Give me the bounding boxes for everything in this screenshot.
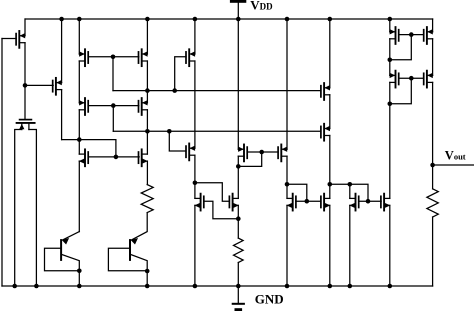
wire node down to M5 drain	[78, 140, 80, 155]
transistor Q1 PNP	[60, 240, 62, 260]
wire M9 gate loop	[175, 57, 186, 91]
wire M20 source to GND	[389, 205, 391, 286]
transistor M3 PMOS	[87, 52, 89, 63]
transistor M20 NMOS	[380, 196, 382, 207]
wire M3 drain to M4 source	[78, 61, 80, 103]
wire R2 top lead	[237, 219, 239, 238]
wire M6 drain to bus A	[146, 61, 148, 91]
svg-text:GND: GND	[255, 292, 284, 307]
node M3 VDD junction	[77, 17, 82, 22]
node M8 drain bus B junction	[145, 129, 150, 134]
wire bus B	[113, 130, 321, 132]
wire M5 source to Q1 emitter	[78, 161, 80, 232]
node M19 gate junction	[366, 199, 371, 204]
node Q2 collector to GND	[145, 284, 150, 289]
node R2 GND junction	[236, 284, 241, 289]
wire M11 gate to R2 top	[204, 201, 239, 219]
wire M5-M8 gate line	[88, 156, 139, 158]
transistor M16 PMOS	[320, 86, 322, 97]
node M23-M24 gate junction	[409, 76, 414, 81]
wire M1 gate to left edge	[2, 38, 16, 40]
wire left edge ground return	[1, 39, 3, 287]
wire M11 source to GND	[194, 205, 196, 286]
wire M15 diode loop	[287, 184, 307, 201]
wire M2 drain to node	[62, 139, 80, 141]
resistor R3 load	[427, 189, 438, 217]
transistor M8 NMOS	[138, 152, 140, 163]
wire tap B down to bus B	[112, 106, 114, 132]
wire M7 drain to bus B	[146, 110, 148, 132]
wire M15-M18 gate line	[296, 200, 321, 202]
wire node down to C1 gate	[24, 85, 26, 119]
transistor M22 PMOS	[423, 30, 425, 41]
wire M10 gate loop	[169, 131, 186, 151]
node M10 gate bus B junction	[167, 129, 172, 134]
wire M21 drain down	[389, 39, 391, 60]
wire M13-M14 gate line	[247, 151, 278, 153]
wire M19 drain trunk	[349, 184, 351, 198]
transistor M14 PMOS	[277, 147, 279, 158]
wire R3 to GND corner	[432, 217, 434, 286]
node Q2 base-collector tie	[145, 269, 150, 274]
wire node to M2 gate	[25, 84, 53, 86]
node M21 drain diode junction	[388, 58, 393, 63]
node M21-M22 gate junction	[409, 32, 414, 37]
wire VDD stem to M13 source	[237, 19, 239, 149]
node M12 source R2 junction	[236, 216, 241, 221]
wire M15 source to GND	[286, 205, 288, 286]
capacitor C1 channel bar	[17, 122, 35, 124]
wire M22 source to VDD corner	[432, 19, 434, 32]
transistor M11 NMOS	[203, 196, 205, 207]
node M1 drain / M2 gate	[23, 83, 28, 88]
wire M1 source to VDD rail	[24, 19, 26, 36]
wire M17 drain down	[329, 136, 331, 185]
node M15 GND junction	[285, 284, 290, 289]
node Vout junction	[430, 163, 435, 168]
node M2 VDD junction	[59, 17, 64, 22]
node M18 GND junction	[328, 284, 333, 289]
transistor M1 startup PMOS	[15, 34, 17, 45]
svg-text:Vout: Vout	[445, 149, 466, 163]
wire M19 diode loop	[350, 184, 368, 201]
node M9 VDD junction	[193, 17, 198, 22]
transistor Q2 PNP	[129, 240, 131, 260]
transistor M9 PMOS	[185, 52, 187, 63]
wire M10 drain down	[194, 155, 196, 183]
node gate line tap B	[111, 103, 116, 108]
wire tap A down to bus A	[112, 57, 114, 91]
node M14-M15 drain junction	[285, 182, 290, 187]
ground GND symbol	[237, 286, 239, 303]
wire M23 diode loop	[390, 78, 412, 104]
transistor M5 NMOS diode	[87, 152, 89, 163]
transistor M4 PMOS	[87, 101, 89, 112]
transistor M23 PMOS diode	[398, 73, 400, 84]
node gate line tap A	[111, 55, 116, 60]
node M21 VDD junction	[388, 17, 393, 22]
wire M21 source to VDD	[389, 19, 391, 32]
transistor M7 PMOS	[138, 101, 140, 112]
wire M21 diode loop	[390, 35, 412, 60]
transistor M10 PMOS	[185, 146, 187, 157]
node M13-M14 gate junction	[259, 150, 264, 155]
wire bus A to M7 source	[146, 91, 148, 103]
wire M23 drain down	[389, 82, 391, 103]
wire M18 source to GND	[329, 205, 331, 286]
wire M1 drain down	[24, 43, 26, 86]
node M23 drain diode junction	[388, 102, 393, 107]
wire Vout down to R3	[432, 165, 434, 189]
node VDD stem junction	[236, 17, 241, 22]
wire M2 drain down	[61, 90, 63, 140]
wire M9 drain to M10 source	[194, 61, 196, 148]
transistor M24 PMOS	[423, 73, 425, 84]
wire M20 drain up to mirror	[389, 104, 391, 199]
capacitor C1 MOS-cap gate bar	[20, 119, 32, 121]
wire M23-M24 gate line	[399, 77, 424, 79]
wire M21 drain to M23 source	[389, 60, 391, 76]
node M6 VDD junction	[145, 17, 150, 22]
wire M9 source to VDD	[194, 19, 196, 54]
node M19 drain junction	[348, 182, 353, 187]
resistor R1	[141, 185, 153, 213]
wire VDD to M14 source	[286, 19, 288, 149]
wire node to M11 drain	[194, 183, 196, 199]
wire M22 drain to M24 source	[432, 39, 434, 76]
node Q1 collector to GND	[77, 284, 82, 289]
wire Vout terminal	[433, 164, 474, 166]
node Q1 base-collector tie	[77, 269, 82, 274]
node M16 VDD junction	[328, 17, 333, 22]
transistor M15 NMOS diode	[295, 196, 297, 207]
wire M19-M20 gate line	[359, 200, 381, 202]
transistor M6 PMOS	[138, 52, 140, 63]
wire M16 drain to M17 source	[329, 95, 331, 129]
transistor M21 PMOS diode	[398, 30, 400, 41]
node M6-M7 bus A junction	[145, 88, 150, 93]
wire M3 source to VDD	[78, 19, 80, 54]
wire M3-M6 gate line	[88, 56, 138, 58]
node M15 gate junction	[305, 199, 310, 204]
wire VDD rail	[25, 18, 433, 20]
transistor M12 NMOS	[228, 196, 230, 207]
wire M19 source to GND	[349, 205, 351, 286]
wire M4 drain down	[78, 110, 80, 140]
node M14 VDD junction	[285, 17, 290, 22]
node M10-M11 drain junction	[193, 181, 198, 186]
wire M8 source to R1	[146, 161, 148, 185]
transistor M18 NMOS	[320, 196, 322, 207]
wire M12 source down to R2	[237, 205, 239, 218]
node M11 GND junction	[193, 284, 198, 289]
wire M2 source to VDD	[61, 19, 63, 83]
wire M16 source to VDD	[329, 19, 331, 88]
wire bus A	[113, 90, 321, 92]
wire M14 drain down	[286, 156, 288, 184]
wire GND rail	[2, 285, 433, 287]
wire M13 drain down	[237, 156, 239, 166]
node M17-M18 drain junction	[328, 182, 333, 187]
wire M6 source to VDD	[146, 19, 148, 54]
wire M13 drain to M12 drain	[237, 166, 239, 198]
power VDD symbol	[230, 0, 246, 3]
wire M5 diode tie	[79, 140, 116, 157]
node M2/M4/M5 drain junction	[77, 137, 82, 142]
node C1 right to GND	[34, 284, 39, 289]
svg-text:VDD: VDD	[250, 0, 273, 13]
wire M4-M7 gate line	[88, 105, 138, 107]
transistor M2 PMOS	[52, 81, 54, 92]
wire M21-M22 gate line	[399, 34, 424, 36]
node M19 GND junction	[348, 284, 353, 289]
node M13 drain diode junction	[236, 164, 241, 169]
capacitor C1 leads	[21, 124, 23, 130]
node M5 gate junction	[114, 155, 119, 160]
wire node to M18 drain	[329, 184, 331, 198]
node M20 GND junction	[388, 284, 393, 289]
wire R2 to GND	[237, 263, 239, 287]
resistor R2	[234, 238, 244, 262]
transistor M13 PMOS diode	[246, 147, 248, 158]
transistor M19 NMOS diode	[358, 196, 360, 207]
wire M11 diode loop to M12 gate	[195, 183, 230, 201]
node C1 left to GND	[12, 284, 17, 289]
wire M13 diode loop	[238, 152, 261, 166]
wire node to M15 drain	[286, 184, 288, 198]
wire bus B to M8 drain	[146, 131, 148, 154]
node M9 gate bus A junction	[172, 88, 177, 93]
transistor M17 PMOS	[320, 126, 322, 137]
wire M24 drain to Vout	[432, 82, 434, 165]
wire M17 drain to M19 drain	[330, 183, 350, 185]
